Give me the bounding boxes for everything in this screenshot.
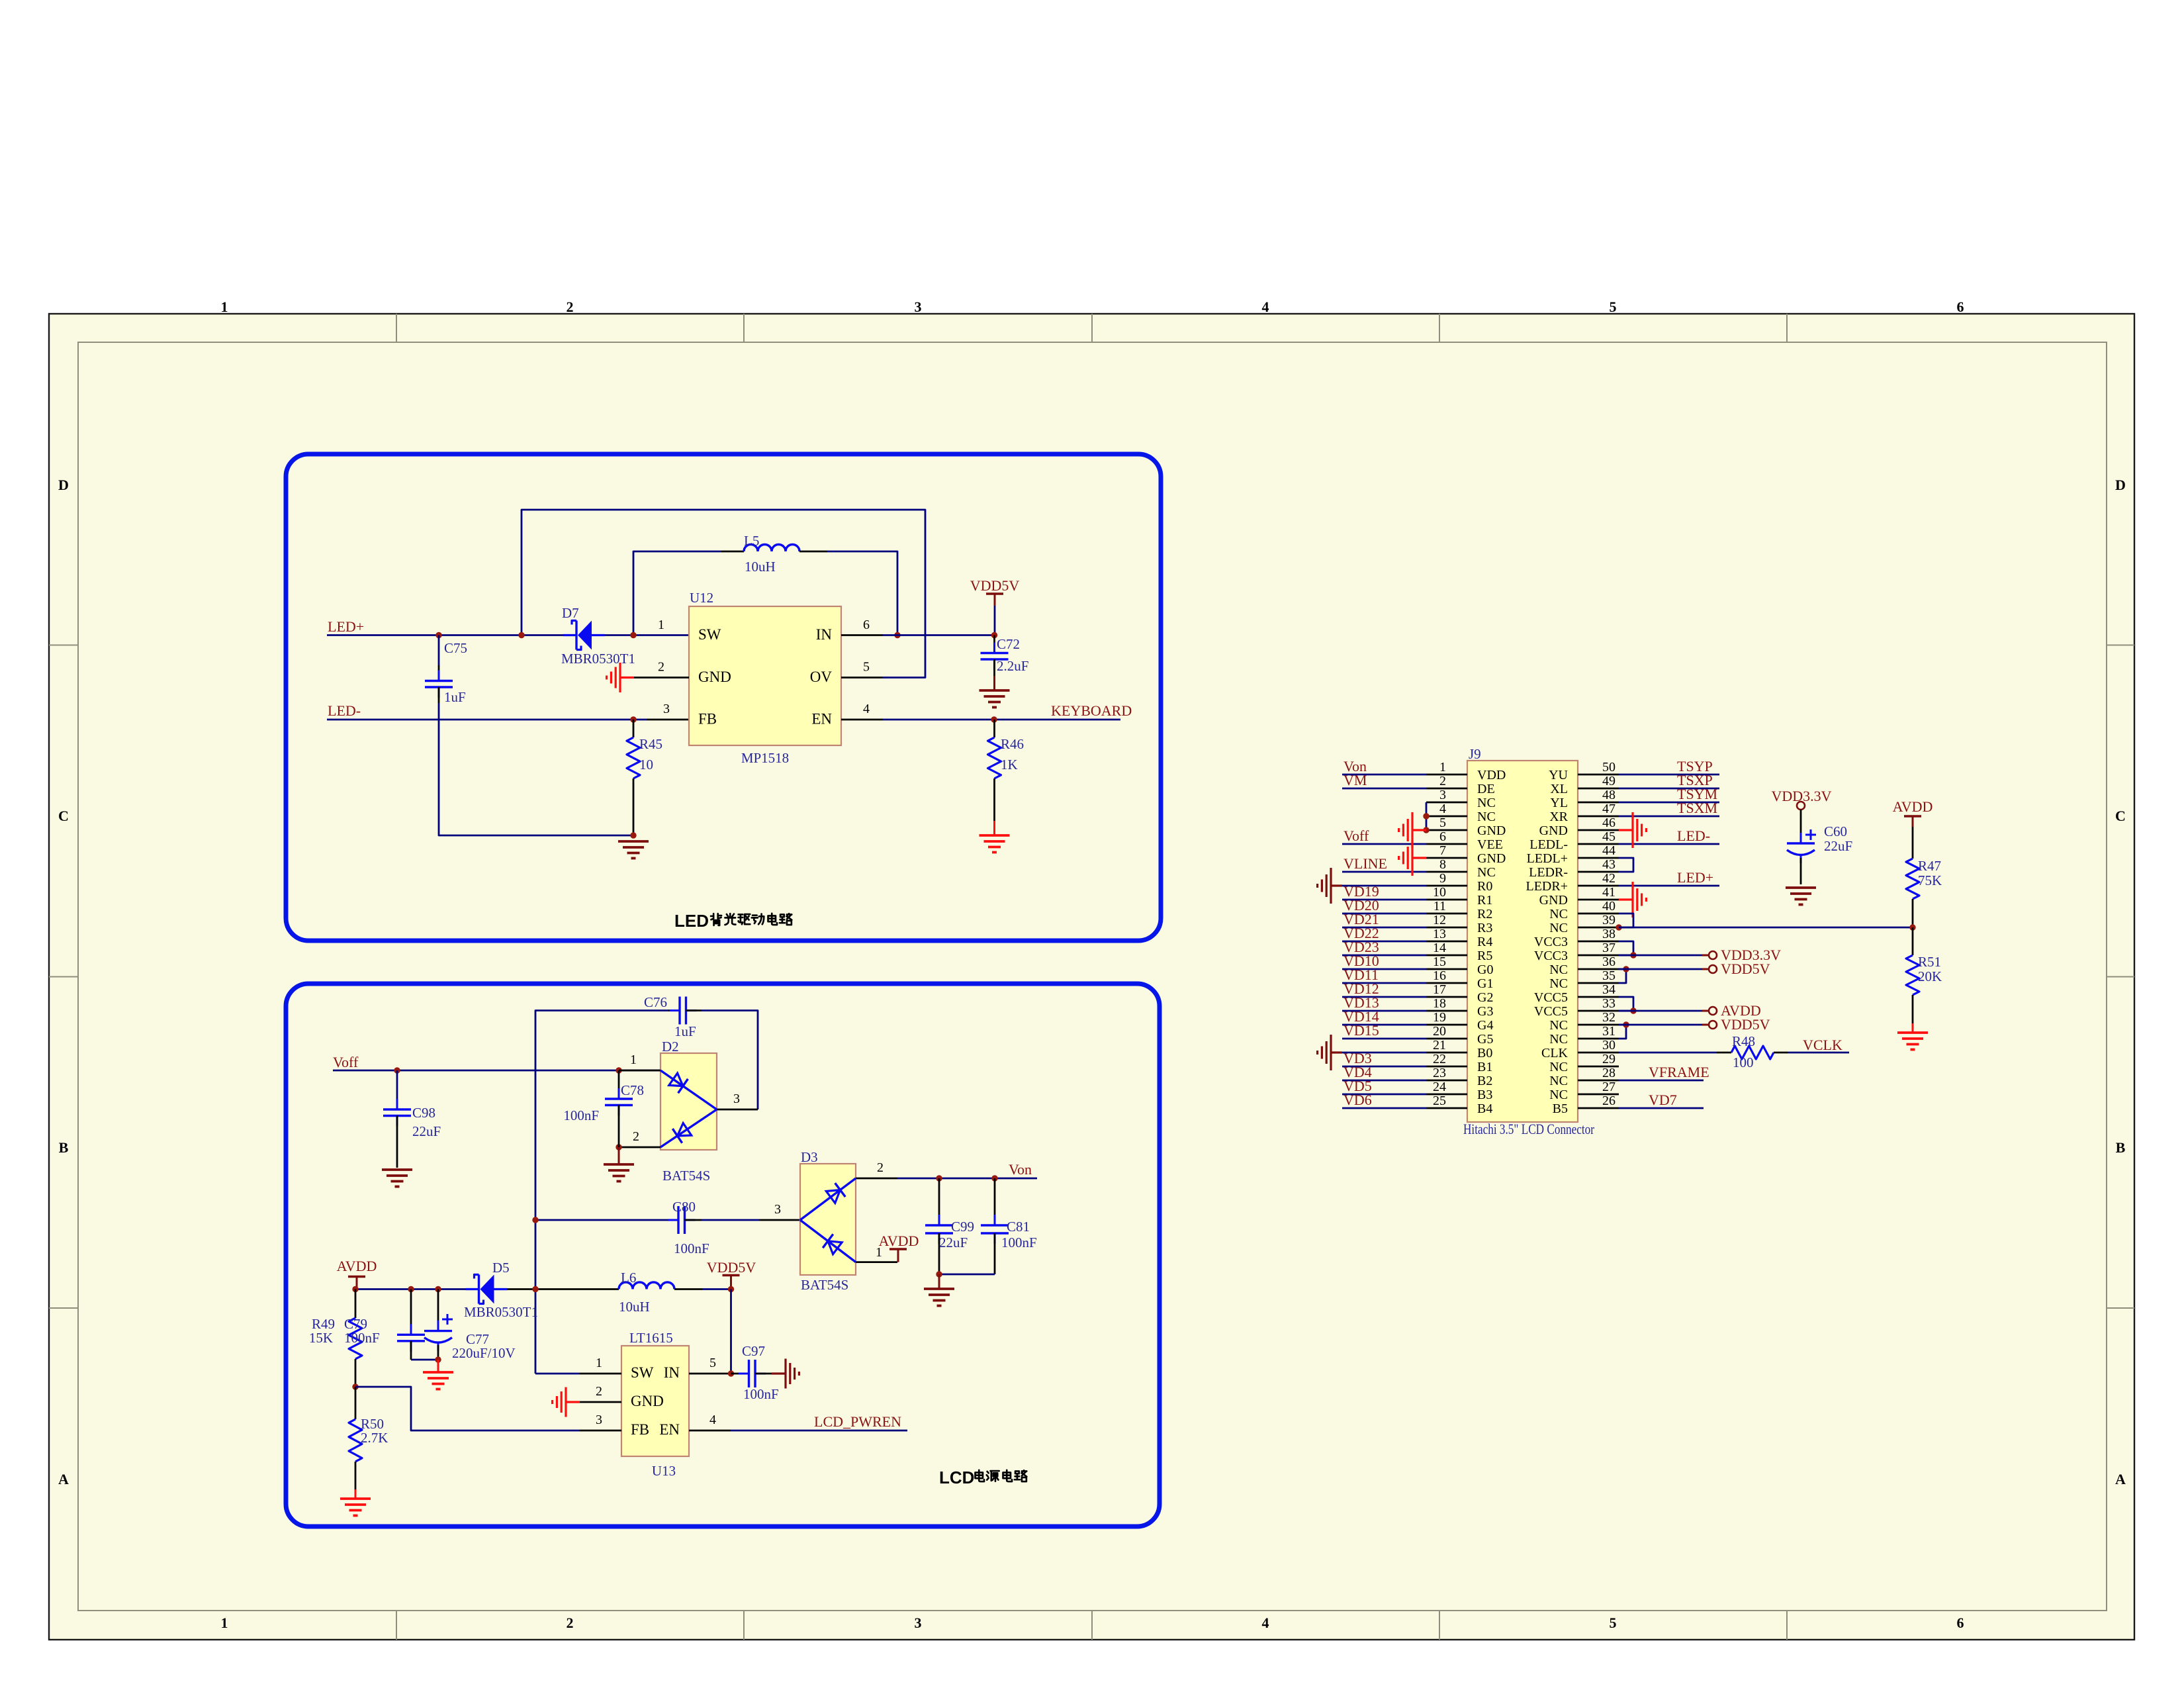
svg-text:VCLK: VCLK: [1803, 1037, 1843, 1053]
terminal VDD5V lower: [1709, 1021, 1717, 1029]
svg-text:NC: NC: [1549, 976, 1568, 991]
block frame LCD power circuit: [286, 984, 1160, 1526]
capacitor C81: [994, 1178, 996, 1225]
svg-text:5: 5: [1439, 816, 1446, 830]
pin 32 NC of J9: [1578, 1024, 1619, 1026]
svg-text:B5: B5: [1553, 1102, 1568, 1116]
svg-text:BAT54S: BAT54S: [801, 1277, 848, 1293]
svg-text:VCC3: VCC3: [1534, 935, 1568, 949]
pin 4 EN of U12: [841, 719, 883, 721]
junction on LED+ at C75: [435, 632, 441, 638]
capacitor C78: [618, 1070, 620, 1099]
junction C77 bottom: [435, 1356, 441, 1362]
svg-text:NC: NC: [1477, 796, 1496, 810]
pin 20 G5 of J9: [1426, 1038, 1467, 1040]
svg-text:NC: NC: [1477, 810, 1496, 824]
svg-text:2: 2: [1439, 774, 1446, 788]
power ground maroon at J9 pin9: [1342, 885, 1426, 887]
pin 42 LEDR+ of J9: [1578, 885, 1619, 887]
svg-text:45: 45: [1602, 829, 1615, 844]
connector J9 body Hitachi LCD: [1467, 761, 1578, 1122]
wire net VD7: [1619, 1107, 1704, 1109]
wire C99-C81 bottom: [939, 1274, 995, 1276]
svg-text:LED-: LED-: [328, 702, 361, 719]
pin 31 NC of J9: [1578, 1038, 1619, 1040]
wire R48 to VCLK: [1788, 1052, 1849, 1054]
svg-text:4: 4: [1262, 299, 1269, 315]
wire C76 right to D2 pin3: [702, 1011, 758, 1110]
svg-text:C60: C60: [1824, 823, 1847, 839]
svg-text:LED-: LED-: [1677, 827, 1710, 844]
wire net VD15: [1342, 1038, 1426, 1040]
svg-text:R48: R48: [1732, 1033, 1755, 1049]
svg-text:6: 6: [863, 618, 870, 632]
svg-text:DE: DE: [1477, 782, 1495, 796]
svg-text:Hitachi 3.5" LCD Connector: Hitachi 3.5" LCD Connector: [1463, 1121, 1595, 1137]
svg-text:3: 3: [774, 1202, 781, 1217]
svg-text:100nF: 100nF: [563, 1107, 599, 1123]
svg-text:YU: YU: [1549, 768, 1568, 782]
svg-text:10: 10: [639, 757, 653, 773]
svg-text:VD15: VD15: [1343, 1022, 1379, 1039]
svg-text:C98: C98: [412, 1105, 435, 1121]
pin 10 R1 of J9: [1426, 899, 1467, 901]
terminal AVDD: [1709, 1007, 1717, 1015]
svg-text:3: 3: [663, 702, 670, 716]
svg-text:GND: GND: [1477, 823, 1506, 838]
svg-text:1: 1: [630, 1053, 637, 1067]
svg-text:VCC5: VCC5: [1534, 1004, 1568, 1019]
svg-text:11: 11: [1433, 899, 1446, 914]
svg-text:R5: R5: [1477, 949, 1492, 963]
svg-text:LED+: LED+: [328, 618, 364, 635]
svg-text:VD7: VD7: [1649, 1092, 1677, 1108]
svg-text:LCD_PWREN: LCD_PWREN: [814, 1413, 901, 1430]
power ground at J9 pin7: [1412, 857, 1426, 859]
svg-text:100nF: 100nF: [674, 1241, 709, 1256]
diode D3 element bottom: [800, 1220, 856, 1262]
svg-text:5: 5: [1610, 1615, 1617, 1631]
svg-text:B: B: [2116, 1139, 2126, 1156]
svg-text:IN: IN: [816, 626, 833, 643]
ground earth below C77: [437, 1360, 439, 1372]
junction R47/R51/pin39 net: [1909, 924, 1915, 930]
svg-text:Voff: Voff: [1343, 827, 1369, 844]
svg-text:G2: G2: [1477, 990, 1493, 1005]
svg-text:4: 4: [709, 1413, 716, 1427]
svg-text:100nF: 100nF: [743, 1386, 779, 1402]
wire net VD10: [1342, 968, 1426, 970]
svg-text:R45: R45: [639, 736, 662, 752]
diode D2 element top: [660, 1070, 717, 1109]
svg-text:NC: NC: [1549, 907, 1568, 921]
junction AVDD/R49: [352, 1286, 358, 1292]
junction at FB/R45: [630, 716, 636, 722]
svg-text:20K: 20K: [1918, 968, 1942, 984]
svg-text:R46: R46: [1001, 736, 1024, 752]
junction J9 pin5: [1423, 827, 1429, 833]
svg-text:2: 2: [633, 1129, 639, 1144]
svg-text:C75: C75: [444, 640, 467, 656]
svg-text:C78: C78: [621, 1082, 644, 1098]
terminal VDD5V upper: [1709, 965, 1717, 973]
pin 46 GND of J9: [1578, 829, 1619, 831]
pin 45 LEDL- of J9: [1578, 843, 1619, 845]
resistor R48: [1717, 1052, 1731, 1054]
ground earth below R46: [979, 834, 1010, 837]
svg-text:Von: Von: [1009, 1161, 1032, 1178]
svg-text:YL: YL: [1550, 796, 1568, 810]
svg-text:14: 14: [1433, 941, 1446, 955]
svg-text:27: 27: [1602, 1080, 1615, 1094]
power symbol AVDD block2: [348, 1276, 365, 1278]
svg-text:5: 5: [863, 660, 870, 675]
svg-text:AVDD: AVDD: [337, 1258, 377, 1274]
wire net VD19: [1342, 899, 1426, 901]
svg-text:1: 1: [221, 299, 228, 315]
wire SW to vertical: [535, 1373, 580, 1375]
pin 15 G0 of J9: [1426, 968, 1467, 970]
pin 21 B0 of J9: [1426, 1052, 1467, 1054]
svg-text:R4: R4: [1477, 935, 1492, 949]
pin 17 G2 of J9: [1426, 996, 1467, 998]
pin 49 XL of J9: [1578, 788, 1619, 790]
svg-text:U13: U13: [652, 1463, 676, 1479]
svg-text:L5: L5: [744, 533, 759, 549]
svg-text:VDD5V: VDD5V: [1721, 1016, 1770, 1033]
svg-text:1: 1: [1439, 760, 1446, 774]
wire LED+: [327, 634, 573, 636]
svg-text:G1: G1: [1477, 976, 1493, 991]
svg-text:34: 34: [1602, 982, 1615, 997]
diode D7 MBR0530T1: [563, 634, 576, 636]
svg-text:C81: C81: [1007, 1219, 1030, 1235]
wire net VLINE: [1342, 871, 1426, 873]
wire net VM: [1342, 788, 1426, 790]
wire net VFRAME: [1619, 1080, 1704, 1082]
wire J9 pins 44-43 tie: [1619, 858, 1633, 872]
pin 4 EN of U13: [689, 1430, 731, 1432]
junction Voff/C98: [394, 1067, 400, 1073]
svg-text:VD6: VD6: [1343, 1092, 1372, 1108]
svg-text:C99: C99: [951, 1219, 974, 1235]
resistor R47: [1912, 827, 1914, 859]
svg-text:LEDR-: LEDR-: [1529, 865, 1568, 880]
sheet background: [49, 314, 2134, 1640]
svg-text:9: 9: [1439, 871, 1446, 886]
svg-text:75K: 75K: [1918, 872, 1942, 888]
wire net TSYP: [1619, 774, 1719, 776]
pin 2 GND of U12: [634, 677, 689, 679]
pin 7 GND of J9: [1426, 857, 1467, 859]
wire net TSXP: [1619, 788, 1719, 790]
svg-text:D: D: [2115, 477, 2126, 493]
svg-text:41: 41: [1602, 885, 1615, 900]
svg-text:VM: VM: [1343, 772, 1367, 788]
svg-text:26: 26: [1602, 1094, 1615, 1108]
pin 5 IN of U13: [689, 1373, 731, 1375]
resistor R49: [355, 1289, 357, 1319]
IC U13 LT1615 body: [621, 1346, 689, 1456]
svg-text:B4: B4: [1477, 1102, 1492, 1116]
svg-text:2: 2: [658, 660, 664, 675]
pin 16 G1 of J9: [1426, 982, 1467, 984]
pin 27 NC of J9: [1578, 1094, 1619, 1096]
svg-text:NC: NC: [1549, 962, 1568, 977]
pin 43 LEDR- of J9: [1578, 871, 1619, 873]
pin 25 B4 of J9: [1426, 1107, 1467, 1109]
svg-text:22: 22: [1433, 1052, 1446, 1066]
svg-text:47: 47: [1602, 802, 1615, 816]
junction AVDD/C79: [408, 1286, 414, 1292]
inductor L5: [721, 551, 744, 553]
svg-text:LED+: LED+: [1677, 869, 1713, 886]
pin 9 R0 of J9: [1426, 885, 1467, 887]
resistor R50: [355, 1387, 357, 1419]
ground earth below R45: [618, 840, 649, 843]
svg-text:R3: R3: [1477, 921, 1492, 935]
svg-text:B3: B3: [1477, 1088, 1492, 1102]
svg-text:R47: R47: [1918, 858, 1941, 874]
wire net VD11: [1342, 982, 1426, 984]
ground earth below R51: [1912, 1023, 1914, 1033]
svg-text:MP1518: MP1518: [741, 750, 789, 766]
svg-text:25: 25: [1433, 1094, 1446, 1108]
pin 2 of D3: [856, 1178, 897, 1180]
pin 11 R2 of J9: [1426, 913, 1467, 915]
svg-text:U12: U12: [690, 590, 713, 606]
svg-text:24: 24: [1433, 1080, 1446, 1094]
svg-text:C80: C80: [672, 1199, 696, 1215]
junction VDD5V/L6: [728, 1286, 734, 1292]
wire net VD6: [1342, 1107, 1426, 1109]
svg-text:49: 49: [1602, 774, 1615, 788]
junction Voff/C78: [615, 1067, 621, 1073]
wire AVDD row: [357, 1288, 466, 1290]
svg-text:GND: GND: [1477, 851, 1506, 866]
junction Von/C99: [936, 1175, 942, 1181]
svg-text:BAT54S: BAT54S: [662, 1168, 710, 1184]
svg-text:6: 6: [1957, 299, 1964, 315]
diode D3 element top: [800, 1178, 856, 1220]
svg-text:D5: D5: [492, 1260, 510, 1276]
pin 1 SW of U13: [580, 1373, 621, 1375]
svg-text:J9: J9: [1469, 746, 1481, 762]
svg-text:MBR0530T1: MBR0530T1: [561, 651, 635, 667]
junction J9 pin36: [1623, 966, 1629, 972]
svg-text:R51: R51: [1918, 954, 1941, 970]
wire net LED+: [1619, 885, 1719, 887]
pin 1 of D2: [619, 1070, 660, 1072]
pin 48 YL of J9: [1578, 802, 1619, 804]
diode D5 MBR0530T1: [466, 1288, 479, 1290]
capacitor C60 electrolytic: [1800, 810, 1802, 843]
svg-text:3: 3: [915, 1615, 922, 1631]
pin 3 NC of J9: [1426, 802, 1467, 804]
wire IN to VDD5V: [883, 634, 994, 636]
pin 35 NC of J9: [1578, 982, 1619, 984]
wire C80 to D3 pin3: [702, 1219, 759, 1221]
pin 3 FB of U13: [580, 1430, 621, 1432]
capacitor C79: [410, 1289, 412, 1335]
pin 3 of D2: [717, 1109, 758, 1111]
svg-text:10uH: 10uH: [745, 559, 776, 575]
svg-text:38: 38: [1602, 927, 1615, 941]
junction C99 bottom: [936, 1271, 942, 1277]
svg-text:3: 3: [596, 1413, 602, 1427]
svg-text:2.2uF: 2.2uF: [997, 658, 1028, 674]
junction VDD5V at C72: [991, 632, 997, 638]
pin 5 GND of J9: [1426, 829, 1467, 831]
pin 5 OV of U12: [841, 677, 883, 679]
svg-text:29: 29: [1602, 1052, 1615, 1066]
capacitor C80: [668, 1219, 678, 1221]
svg-text:50: 50: [1602, 760, 1615, 774]
svg-text:B1: B1: [1477, 1060, 1492, 1074]
wire net TSXM: [1619, 816, 1719, 818]
junction J9 pin33: [1630, 1008, 1636, 1013]
svg-text:VLINE: VLINE: [1343, 855, 1387, 872]
wire net VD21: [1342, 927, 1426, 929]
svg-text:A: A: [58, 1471, 69, 1487]
wire top loop net SW: [522, 510, 925, 678]
svg-text:18: 18: [1433, 996, 1446, 1011]
svg-text:2: 2: [877, 1160, 884, 1175]
svg-text:100nF: 100nF: [1001, 1235, 1037, 1250]
wire pin36 to VDD5V terminal: [1619, 968, 1702, 970]
wire C76 top loop: [535, 1011, 668, 1374]
svg-text:FB: FB: [698, 711, 717, 727]
svg-text:LT1615: LT1615: [629, 1330, 673, 1346]
wire CLK to R48: [1619, 1052, 1717, 1054]
svg-text:2: 2: [596, 1384, 602, 1399]
pin 38 VCC3 of J9: [1578, 941, 1619, 943]
svg-text:G4: G4: [1477, 1018, 1493, 1033]
svg-text:GND: GND: [1539, 823, 1568, 838]
wire pin37 to VDD3.3V terminal: [1619, 955, 1702, 957]
wire LED-: [327, 719, 647, 721]
svg-text:VCC3: VCC3: [1534, 949, 1568, 963]
power ground at J9 pin46: [1619, 829, 1633, 831]
pin 3 of D3: [759, 1219, 800, 1221]
pin 4 NC of J9: [1426, 816, 1467, 818]
wire J9 pins 32-31 tie: [1619, 1025, 1626, 1039]
svg-text:VCC5: VCC5: [1534, 990, 1568, 1005]
wire net VD14: [1342, 1024, 1426, 1026]
pin 24 B3 of J9: [1426, 1094, 1467, 1096]
svg-text:LCD: LCD: [939, 1468, 974, 1487]
svg-text:4: 4: [1262, 1615, 1269, 1631]
capacitor C97: [731, 1373, 749, 1375]
svg-text:VDD: VDD: [1477, 768, 1506, 782]
svg-text:35: 35: [1602, 968, 1615, 983]
wire Von: [897, 1178, 1037, 1180]
svg-text:23: 23: [1433, 1066, 1446, 1080]
svg-text:1uF: 1uF: [444, 689, 466, 705]
wire net VD13: [1342, 1010, 1426, 1012]
wire net LED-: [1619, 843, 1719, 845]
svg-text:19: 19: [1433, 1010, 1446, 1025]
svg-text:D: D: [58, 477, 69, 493]
svg-text:NC: NC: [1549, 921, 1568, 935]
pin 2 of D2: [619, 1147, 660, 1149]
svg-text:6: 6: [1439, 829, 1446, 844]
power ground at C97: [772, 1372, 786, 1374]
svg-text:28: 28: [1602, 1066, 1615, 1080]
pin 13 R4 of J9: [1426, 941, 1467, 943]
svg-text:GND: GND: [1539, 893, 1568, 908]
svg-text:GND: GND: [631, 1393, 664, 1409]
inductor L6: [619, 1282, 674, 1289]
wire net VD20: [1342, 913, 1426, 915]
wire Voff: [333, 1070, 660, 1072]
wire J9 pins 38-37 tie: [1619, 941, 1633, 955]
capacitor C99: [938, 1178, 940, 1225]
wire VDD5V down to IN pin5: [730, 1289, 732, 1374]
ground earth below C99: [938, 1274, 940, 1288]
svg-text:2: 2: [567, 299, 574, 315]
junction R49/R50/FB: [352, 1383, 358, 1389]
ground earth below C72: [979, 689, 1010, 692]
svg-text:C72: C72: [997, 636, 1020, 652]
ground earth below R50: [340, 1497, 371, 1500]
junction at C72/R46: [991, 716, 997, 722]
pin 1 VDD of J9: [1426, 774, 1467, 776]
svg-text:MBR0530T1: MBR0530T1: [464, 1304, 538, 1320]
junction on LED+ at L5: [630, 632, 636, 638]
wire C79-C77 bottom: [411, 1359, 438, 1361]
wire L6 to VDD5V: [702, 1288, 731, 1290]
svg-text:20: 20: [1433, 1024, 1446, 1039]
svg-text:OV: OV: [810, 669, 833, 685]
svg-text:NC: NC: [1477, 865, 1496, 880]
wire net Voff: [1342, 843, 1426, 845]
svg-text:4: 4: [1439, 802, 1446, 816]
svg-text:8: 8: [1439, 857, 1446, 872]
svg-text:D3: D3: [801, 1149, 818, 1165]
wire J9 pins 34-33 tie: [1619, 997, 1633, 1011]
power ground at U12 pin2: [620, 677, 634, 679]
svg-text:7: 7: [1439, 843, 1446, 858]
wire net Von: [1342, 774, 1426, 776]
svg-text:2.7K: 2.7K: [361, 1430, 388, 1446]
svg-text:15: 15: [1433, 955, 1446, 969]
pin 6 IN of U12: [841, 634, 883, 636]
junction on LED+ at top loop: [518, 632, 524, 638]
svg-text:13: 13: [1433, 927, 1446, 941]
svg-text:31: 31: [1602, 1024, 1615, 1039]
svg-text:6: 6: [1957, 1615, 1964, 1631]
wire EN to LCD_PWREN: [731, 1430, 907, 1432]
svg-text:IN: IN: [664, 1364, 680, 1381]
junction at IN pin: [894, 632, 900, 638]
wire net VD22: [1342, 941, 1426, 943]
pin 40 NC of J9: [1578, 913, 1619, 915]
svg-text:21: 21: [1433, 1038, 1446, 1053]
svg-text:C97: C97: [742, 1343, 765, 1359]
capacitor C98: [396, 1070, 398, 1099]
svg-text:43: 43: [1602, 857, 1615, 872]
wire net VD12: [1342, 996, 1426, 998]
capacitor C72: [993, 635, 995, 653]
pin 37 VCC3 of J9: [1578, 955, 1619, 957]
svg-text:G0: G0: [1477, 962, 1493, 977]
svg-text:FB: FB: [631, 1421, 649, 1438]
pin 29 NC of J9: [1578, 1066, 1619, 1068]
pin 30 CLK of J9: [1578, 1052, 1619, 1054]
svg-text:LEDL-: LEDL-: [1529, 837, 1568, 852]
svg-text:LED: LED: [674, 911, 709, 931]
